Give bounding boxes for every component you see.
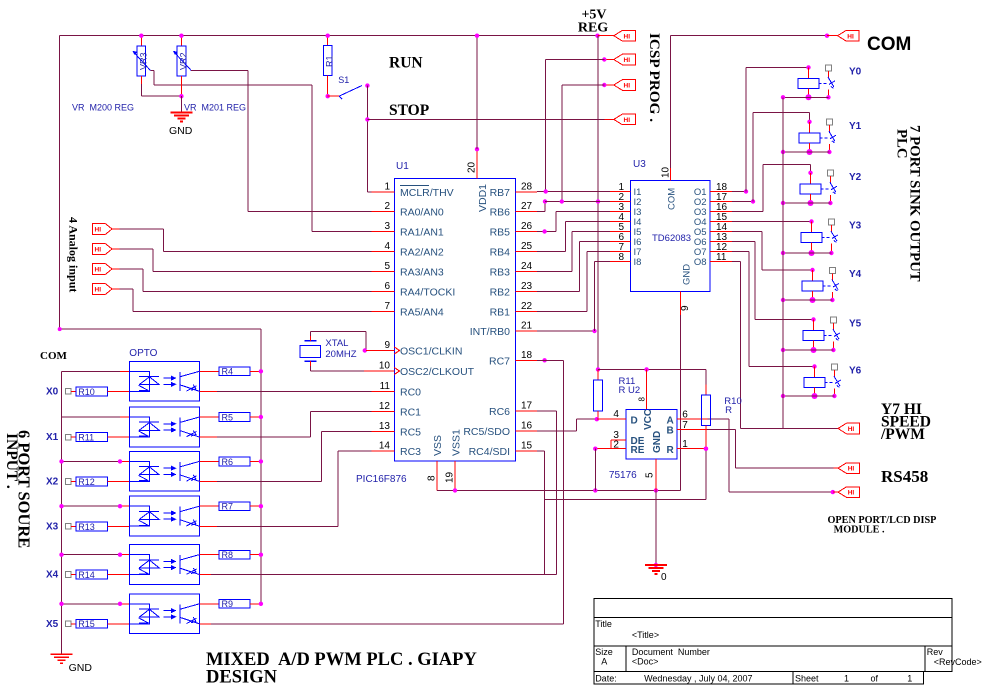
label +5V REG — [578, 8, 608, 36]
title block frame — [594, 598, 952, 684]
svg-text:OSC2/CLKOUT: OSC2/CLKOUT — [400, 366, 475, 378]
svg-text:S1: S1 — [338, 75, 349, 85]
svg-text:HI: HI — [95, 247, 102, 254]
wire RC4/SDI drop — [537, 451, 545, 575]
wire VDD1 to +5V rail — [475, 34, 479, 150]
U3 pin 10 COM — [661, 166, 678, 210]
svg-text:HI: HI — [847, 33, 854, 40]
wire O3 to relay Y2 — [732, 165, 811, 212]
wire ground rail — [437, 488, 681, 492]
label R10 R — [724, 396, 741, 416]
svg-text:REG: REG — [578, 21, 608, 36]
svg-text:20: 20 — [467, 161, 478, 173]
U3 pin 16 O3 — [694, 202, 732, 218]
relay Y6 coil — [804, 364, 833, 399]
optocoupler opto 4 — [129, 496, 199, 536]
wire relay Y6 bottom row — [781, 394, 835, 398]
svg-text:RA4/TOCKI: RA4/TOCKI — [400, 287, 455, 299]
svg-text:17: 17 — [521, 401, 533, 412]
U2 pin 7 B — [667, 420, 707, 437]
U1 pin 21 INT/RB0 — [470, 321, 537, 339]
svg-text:Y5: Y5 — [849, 319, 862, 330]
svg-text:Y2: Y2 — [849, 172, 862, 183]
wire VR bottoms to GND — [141, 94, 183, 113]
wire RB3 stair to I5 — [537, 232, 610, 272]
U2 pin VCC — [643, 409, 654, 430]
relay Y1 coil — [799, 120, 828, 155]
label VR M200 REG — [72, 103, 134, 113]
wire STOP line to ICSP connector — [367, 118, 613, 120]
svg-text:RUN: RUN — [389, 55, 423, 72]
svg-text:27: 27 — [521, 201, 533, 212]
wire RB2 stair to I6 — [537, 242, 610, 292]
wire opto5 out stub — [199, 574, 211, 576]
wire relay Y4 bottom row — [781, 298, 833, 302]
U3 pin 12 O7 — [694, 242, 732, 258]
wire opto6 out stub — [199, 623, 211, 625]
terminal X1 — [46, 432, 76, 443]
U1 pin 28 RB7 — [490, 182, 537, 200]
resistor R4 — [199, 367, 263, 377]
wire RB4 stair to I4 — [537, 222, 610, 252]
terminal X5 — [46, 619, 76, 630]
svg-text:Sheet: Sheet — [795, 674, 819, 684]
ground 0 (75176) — [645, 490, 667, 583]
label Y5 — [849, 319, 862, 330]
svg-text:RA1/AN1: RA1/AN1 — [400, 227, 444, 239]
label ICSP PROG. — [646, 33, 663, 122]
wire RC5/SDO to 75176 D — [537, 419, 597, 431]
U2 pin 3 DE — [611, 430, 645, 447]
svg-text:RB1: RB1 — [490, 307, 511, 319]
U1 pin 16 RC5/SDO — [463, 421, 537, 439]
resistor R9 — [199, 599, 263, 609]
U2 pin 2 RE — [593, 440, 645, 456]
svg-text:X5: X5 — [46, 619, 59, 630]
svg-text:VR M201 REG: VR M201 REG — [184, 103, 246, 113]
U3 pin 11 O8 — [694, 252, 732, 268]
IC U3 TD62083 body — [630, 159, 710, 291]
svg-text:OPTO: OPTO — [129, 348, 157, 359]
svg-text:X0: X0 — [46, 386, 59, 397]
svg-text:STOP: STOP — [389, 102, 430, 119]
U3 pin 2 I2 — [610, 192, 641, 208]
svg-text:Y0: Y0 — [849, 66, 862, 77]
svg-text:RS458: RS458 — [881, 467, 928, 486]
U1 pin 19 VSS1 — [445, 429, 463, 490]
svg-text:28: 28 — [521, 182, 533, 193]
svg-text:3: 3 — [384, 221, 390, 232]
wire RB7 to I1 (net PGD) — [537, 189, 610, 193]
svg-text:RA3/AN3: RA3/AN3 — [400, 267, 444, 279]
label OPTO — [129, 348, 157, 359]
U1 pin 26 RB5 — [490, 221, 537, 239]
svg-text:10: 10 — [379, 361, 391, 372]
wire opto5 output row — [211, 574, 556, 576]
svg-text:RA2/AN2: RA2/AN2 — [400, 247, 444, 259]
label Y3 — [849, 221, 862, 232]
wire S1 to MCLR and STOP line — [365, 86, 371, 192]
wire relay Y5 bottom row — [781, 348, 834, 352]
label DESIGN — [206, 668, 278, 688]
svg-text:4 Analog input: 4 Analog input — [67, 217, 81, 292]
wire common bus branch to opto 3 — [59, 459, 129, 463]
wire RC7 to opto6 output — [211, 358, 563, 624]
svg-text:RC0: RC0 — [400, 386, 421, 398]
svg-text:12: 12 — [379, 401, 391, 412]
relay Y3 coil — [801, 219, 830, 256]
svg-text:GND: GND — [682, 264, 693, 285]
svg-text:5: 5 — [384, 261, 390, 272]
svg-text:1: 1 — [682, 439, 688, 450]
svg-text:RC7: RC7 — [489, 355, 510, 367]
wire analog 3 to U1 — [120, 269, 372, 292]
wire common bus branch to opto 5 — [59, 553, 129, 557]
svg-text:8: 8 — [427, 475, 438, 481]
wire O4 to relay Y3 — [732, 221, 812, 223]
svg-text:R6: R6 — [222, 457, 234, 467]
svg-text:4: 4 — [613, 409, 619, 420]
connector HI ICSP 3 (PGC) — [602, 80, 635, 91]
wire COM rail — [671, 34, 830, 169]
svg-text:COM: COM — [40, 350, 68, 362]
label Y6 — [849, 366, 862, 377]
wire RB1 stair to I7 — [537, 252, 610, 312]
svg-text:X1: X1 — [46, 432, 59, 443]
U1 pin 23 RB2 — [490, 281, 537, 299]
svg-text:TD62083: TD62083 — [652, 233, 691, 244]
svg-text:HI: HI — [624, 33, 631, 40]
svg-text:Y4: Y4 — [849, 269, 862, 280]
label INPUT . — [3, 433, 20, 489]
label Y0 — [849, 66, 862, 77]
U1 pin 3 RA1/AN1 — [372, 221, 444, 239]
connector HI analog 4 — [92, 284, 119, 295]
optocoupler opto 6 — [129, 594, 199, 634]
connector HI RS458 B — [838, 487, 860, 498]
svg-text:/PWM: /PWM — [880, 426, 925, 443]
svg-text:X2: X2 — [46, 477, 59, 488]
svg-text:<RevCode>: <RevCode> — [934, 657, 982, 667]
svg-text:X4: X4 — [46, 570, 59, 581]
svg-text:HI: HI — [624, 83, 631, 90]
svg-text:9: 9 — [384, 340, 390, 351]
connector HI ICSP 2 (PGD) — [602, 54, 635, 65]
wire ICSP2 to RB7 — [546, 60, 605, 192]
label MIXED A/D PWM PLC . GIAPY — [206, 650, 477, 670]
label PLC — [894, 129, 910, 159]
resistor R14 — [76, 570, 129, 580]
U3 pin 14 O5 — [694, 222, 732, 238]
resistor R12 — [76, 477, 129, 487]
relay Y4 contact — [829, 267, 839, 302]
U1 pin 15 RC4/SDI — [469, 441, 537, 459]
svg-text:HI: HI — [848, 490, 855, 497]
svg-text:R9: R9 — [222, 599, 234, 609]
wire common bus branch to opto 4 — [59, 504, 129, 508]
U1 pin 14 RC3 — [372, 441, 422, 459]
svg-text:25: 25 — [521, 241, 533, 252]
svg-text:VDD1: VDD1 — [477, 184, 489, 212]
U1 pin 12 RC1 — [372, 401, 422, 419]
svg-text:19: 19 — [445, 471, 456, 483]
svg-text:1: 1 — [384, 182, 390, 193]
U2 pin 4 D — [597, 409, 638, 427]
svg-text:INPUT .: INPUT . — [3, 433, 20, 489]
wire RC6 drop to opto5 row — [537, 411, 556, 575]
svg-text:10: 10 — [661, 166, 672, 178]
resistor R10 — [702, 369, 711, 451]
svg-text:1: 1 — [844, 674, 849, 684]
U1 pin 17 RC6 — [489, 401, 537, 419]
wire analog 2 to U1 — [120, 249, 372, 272]
resistor R15 — [76, 619, 129, 629]
svg-text:R1: R1 — [325, 55, 335, 67]
svg-text:1: 1 — [907, 674, 912, 684]
wire relay Y3 bottom row — [781, 251, 832, 255]
svg-text:ICSP PROG .: ICSP PROG . — [646, 33, 663, 122]
svg-text:2: 2 — [613, 440, 619, 451]
svg-text:COM: COM — [667, 188, 678, 210]
wire analog 4 to U1 — [120, 289, 372, 312]
U2 pin 5 GND stub — [645, 459, 656, 490]
svg-text:RB7: RB7 — [490, 187, 511, 199]
svg-text:GND: GND — [69, 662, 93, 674]
svg-text:9: 9 — [680, 305, 691, 311]
label COM (top right) — [867, 34, 911, 55]
svg-text:15: 15 — [521, 441, 533, 452]
U1 pin 5 RA3/AN3 — [372, 261, 444, 279]
U1 pin 7 RA5/AN4 — [372, 301, 444, 319]
terminal X4 — [46, 570, 76, 581]
wire +5V top rail — [60, 35, 598, 37]
wire O7 to relay Y6 — [732, 252, 815, 367]
U3 pin 5 I5 — [610, 222, 641, 238]
svg-text:RC1: RC1 — [400, 407, 421, 419]
label R11 R U2 — [619, 376, 647, 402]
wire relay Y2 bottom row — [781, 201, 831, 205]
svg-text:I8: I8 — [634, 257, 642, 268]
svg-text:R10: R10 — [78, 387, 95, 397]
U3 pin 8 I8 — [610, 252, 641, 268]
svg-text:VR2: VR2 — [179, 52, 189, 70]
U1 pin 4 RA2/AN2 — [372, 241, 444, 259]
U1 pin 6 RA4/TOCKI — [372, 281, 456, 299]
wire common bus branch to opto 2 — [62, 416, 130, 418]
U2 pin 1 R — [667, 439, 709, 456]
wire VR3 wiper to RA1 — [151, 71, 372, 232]
resistor R8 — [199, 550, 263, 560]
svg-text:R15: R15 — [78, 619, 95, 629]
U3 pin 18 O1 — [694, 182, 732, 198]
svg-text:R11: R11 — [78, 433, 94, 443]
U1 pin 25 RB4 — [490, 241, 537, 259]
svg-text:R14: R14 — [78, 570, 95, 580]
svg-text:22: 22 — [521, 301, 533, 312]
relay Y4 coil — [802, 268, 831, 303]
ground GND (inputs) — [51, 654, 93, 674]
resistor R10 — [76, 387, 129, 397]
svg-text:7: 7 — [384, 301, 390, 312]
wire INT/RB0 stair to I8 — [537, 262, 610, 334]
svg-text:RC6: RC6 — [489, 406, 510, 418]
ground GND (VR divider) — [169, 113, 193, 138]
relay Y5 coil — [803, 317, 832, 353]
svg-text:23: 23 — [521, 281, 533, 292]
wire U3 GND to ground rail — [680, 315, 682, 490]
label STOP — [389, 102, 430, 119]
svg-text:R: R — [667, 445, 675, 456]
svg-text:16: 16 — [521, 421, 533, 432]
svg-text:INT/RB0: INT/RB0 — [470, 326, 510, 338]
svg-text:11: 11 — [716, 252, 727, 263]
wire relay Y1 bottom row — [781, 150, 830, 154]
label OPEN PORT/LCD DISP MODULE — [828, 515, 937, 536]
IC U1 PIC16F876 body — [356, 161, 515, 485]
U3 pin 3 I3 — [610, 202, 641, 218]
resistor R11 — [594, 369, 603, 421]
svg-text:VSS1: VSS1 — [451, 429, 463, 456]
svg-text:Y1: Y1 — [849, 121, 862, 132]
U1 pin 27 RB6 — [490, 201, 537, 219]
svg-text:Wednesday , July 04, 2007: Wednesday , July 04, 2007 — [644, 674, 752, 684]
U1 pin 8 VSS — [427, 435, 445, 490]
svg-text:7: 7 — [682, 420, 688, 431]
potentiometer VR2 — [173, 34, 191, 97]
svg-text:RE: RE — [631, 445, 645, 456]
svg-text:R8: R8 — [222, 550, 234, 560]
svg-text:14: 14 — [379, 441, 391, 452]
optocoupler opto 3 — [129, 451, 199, 491]
optocoupler opto 2 — [129, 407, 199, 447]
label RS458 — [881, 467, 928, 486]
wire ICSP3 to I2 row — [562, 85, 605, 202]
optocoupler opto 5 — [129, 545, 199, 585]
connector HI analog 3 — [92, 264, 119, 275]
U3 pin 13 O6 — [694, 232, 732, 248]
svg-text:GND: GND — [652, 431, 663, 453]
svg-text:RB3: RB3 — [490, 267, 511, 279]
U3 pin 15 O4 — [694, 212, 732, 228]
wire opto4 out to RC3 — [199, 451, 371, 526]
svg-text:6: 6 — [682, 410, 688, 421]
svg-text:RA5/AN4: RA5/AN4 — [400, 307, 444, 319]
wire O1 to relay Y0 — [732, 67, 809, 193]
resistor R6 — [199, 457, 263, 467]
U3 pin 6 I6 — [610, 232, 641, 248]
svg-text:HI: HI — [624, 117, 631, 124]
svg-text:HI: HI — [848, 426, 855, 433]
svg-text:Date:: Date: — [595, 674, 617, 684]
svg-text:4: 4 — [384, 241, 390, 252]
title block text — [595, 619, 982, 684]
svg-text:HI: HI — [848, 466, 855, 473]
connector HI +5V (ICSP 1) — [598, 30, 635, 41]
U1 pin 13 RC5 — [372, 421, 422, 439]
wire left vertical from top rail to R-bus feed — [58, 36, 261, 331]
svg-text:8: 8 — [638, 397, 647, 402]
svg-text:R12: R12 — [78, 477, 95, 487]
label Y1 — [849, 121, 862, 132]
label 4 Analog input — [67, 217, 81, 292]
wire opto1 out to RC0 — [199, 390, 371, 392]
svg-text:13: 13 — [379, 421, 391, 432]
U3 pin 9 GND — [680, 264, 693, 315]
relay Y6 contact — [831, 364, 841, 398]
U3 pin 7 I7 — [610, 242, 641, 258]
wire relay Y0 bottom row — [781, 95, 829, 99]
wire U2 A to RS458 connector — [708, 419, 838, 494]
svg-text:RB2: RB2 — [490, 287, 511, 299]
svg-text:0: 0 — [661, 572, 667, 583]
svg-text:26: 26 — [521, 221, 533, 232]
U3 pin 1 I1 — [610, 182, 641, 198]
svg-text:RB6: RB6 — [490, 207, 511, 219]
svg-text:21: 21 — [521, 321, 533, 332]
relay Y0 contact — [825, 65, 835, 100]
connector HI ICSP 4 (MCLR) — [604, 114, 635, 125]
wire common bus branch to opto 1 — [62, 370, 130, 372]
svg-text:COM: COM — [867, 34, 911, 55]
label RUN — [389, 55, 423, 72]
svg-text:OSC1/CLKIN: OSC1/CLKIN — [400, 346, 462, 358]
svg-text:HI: HI — [624, 57, 631, 64]
wire RB5 stair to I3 — [537, 212, 610, 234]
relay Y0 coil — [798, 65, 827, 100]
svg-text:U1: U1 — [396, 161, 409, 172]
svg-text:of: of — [871, 674, 879, 684]
U3 pin 17 O2 — [694, 192, 732, 208]
svg-text:HI: HI — [95, 227, 102, 234]
U1 pin 22 RB1 — [490, 301, 537, 319]
svg-text:DESIGN: DESIGN — [206, 668, 278, 688]
svg-text:MCLR/THV: MCLR/THV — [400, 187, 454, 199]
resistor R13 — [76, 522, 129, 532]
relay Y3 contact — [828, 219, 838, 255]
svg-text:U3: U3 — [633, 159, 646, 170]
terminal X0 — [46, 386, 76, 397]
svg-text:R U2: R U2 — [619, 385, 641, 396]
svg-text:8: 8 — [618, 252, 624, 263]
svg-text:RC5: RC5 — [400, 427, 421, 439]
svg-text:A: A — [601, 657, 607, 667]
U1 pin 20 VDD1 — [467, 147, 490, 212]
svg-text:Size: Size — [595, 647, 613, 657]
label VR M201 REG — [184, 103, 246, 113]
svg-text:B: B — [667, 426, 674, 437]
svg-text:RA0/AN0: RA0/AN0 — [400, 207, 444, 219]
relay Y2 contact — [827, 170, 837, 205]
connector HI analog 1 — [92, 224, 119, 235]
svg-text:<Doc>: <Doc> — [632, 657, 659, 667]
svg-text:R: R — [725, 405, 732, 416]
connector HI COM — [827, 30, 859, 41]
connector HI analog 2 — [92, 244, 119, 255]
wire opto3 out to RC5 — [199, 432, 371, 482]
U1 pin 24 RB3 — [490, 261, 537, 279]
svg-text:RC5/SDO: RC5/SDO — [463, 426, 510, 438]
wire VCC branch — [598, 367, 706, 409]
connector HI RS458 A — [838, 463, 860, 474]
U1 pin 1 MCLR/THV — [372, 182, 454, 200]
svg-text:Y6: Y6 — [849, 366, 862, 377]
svg-text:MODULE .: MODULE . — [834, 525, 885, 536]
svg-text:HI: HI — [95, 287, 102, 294]
U2 pin 6 A — [667, 410, 708, 427]
svg-text:X3: X3 — [46, 521, 59, 532]
wire O8 to PWM connector — [732, 262, 838, 429]
resistor R7 — [199, 502, 263, 512]
